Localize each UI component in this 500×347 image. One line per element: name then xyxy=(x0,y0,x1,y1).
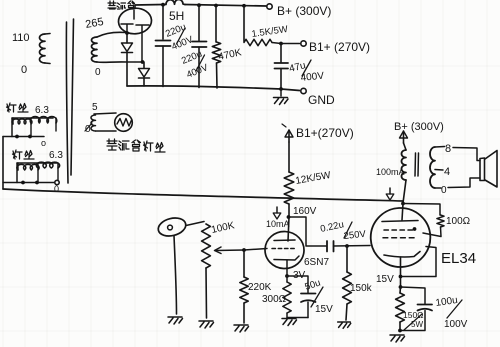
svg-text:10mA: 10mA xyxy=(266,219,290,229)
svg-text:8: 8 xyxy=(445,143,451,155)
svg-text:GND: GND xyxy=(308,93,335,107)
svg-text:o: o xyxy=(41,138,46,148)
svg-text:0: 0 xyxy=(54,184,59,194)
svg-text:6.3: 6.3 xyxy=(49,150,63,161)
svg-text:100mA: 100mA xyxy=(376,167,405,177)
svg-text:110: 110 xyxy=(12,32,30,44)
svg-text:15V: 15V xyxy=(376,274,394,285)
svg-text:15V: 15V xyxy=(315,304,333,315)
svg-text:B1+(270V): B1+(270V) xyxy=(296,126,354,140)
svg-text:150k: 150k xyxy=(350,283,373,294)
svg-text:0: 0 xyxy=(441,185,447,196)
svg-text:5: 5 xyxy=(92,102,98,113)
svg-text:EL34: EL34 xyxy=(441,250,476,267)
svg-text:B1+ (270V): B1+ (270V) xyxy=(309,40,370,54)
svg-text:6SN7: 6SN7 xyxy=(304,257,329,268)
svg-text:100V: 100V xyxy=(444,319,468,330)
svg-text:100Ω: 100Ω xyxy=(446,216,471,227)
svg-text:6.3: 6.3 xyxy=(35,105,49,116)
svg-text:220K: 220K xyxy=(248,282,272,293)
svg-text:4: 4 xyxy=(444,166,450,178)
svg-text:B+ (300V): B+ (300V) xyxy=(277,4,331,18)
svg-text:0: 0 xyxy=(95,67,101,78)
svg-text:160V: 160V xyxy=(293,206,317,217)
svg-text:300Ω: 300Ω xyxy=(262,294,287,305)
svg-text:5H: 5H xyxy=(169,9,184,23)
svg-text:0: 0 xyxy=(21,64,27,76)
svg-text:B+ (300V): B+ (300V) xyxy=(394,121,444,133)
